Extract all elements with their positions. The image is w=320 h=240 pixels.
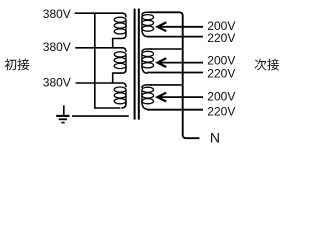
transformer secondary winding S1 (coil loops) [142,12,154,36]
svg-text:N: N [210,129,220,145]
svg-text:380V: 380V [43,7,71,21]
transformer core (double bar) [134,9,136,120]
wire: 380V phase-3 input line [76,83,126,87]
wire: S3 bottom lead (220V) [147,109,203,111]
wire: S2 top lead to bus [150,48,182,50]
wire: 380V phase-1 input line [75,13,126,17]
wire: S3 top lead to bus [150,84,182,86]
svg-text:220V: 220V [207,66,235,80]
wire: winding P1 bottom to phase-2 junction step [113,31,126,47]
transformer primary winding P1 (coil loops) [114,17,126,34]
svg-text:200V: 200V [207,90,235,104]
wire: left vertical bus [95,13,121,108]
arrow: S3 tap (200V) [158,93,204,102]
wire: winding P3 bottom to bus corner [122,101,127,108]
wire: S1 bottom lead (220V) [147,36,203,38]
ground symbol [56,105,129,122]
transformer secondary winding S2 (coil loops) [142,49,154,73]
svg-text:380V: 380V [43,40,71,54]
svg-text:380V: 380V [43,76,71,90]
wire: S2 bottom lead (220V) [147,72,203,74]
wire: ground lead to core [72,115,129,117]
label 初接 (primary side) [5,59,30,71]
svg-text:220V: 220V [207,31,235,45]
arrow: S1 tap (200V) [158,22,204,31]
transformer primary winding P3 (coil loops) [114,87,126,104]
label 次接 (secondary side) [255,59,279,71]
wire: secondary neutral bus with N lead [150,12,199,138]
transformer primary winding P2 (coil loops) [114,52,126,69]
svg-text:220V: 220V [207,104,235,118]
transformer secondary winding S3 (coil loops) [142,85,154,109]
arrow: S2 tap (200V) [158,58,204,67]
wire: 380V phase-2 input line [75,48,126,52]
wire: winding P2 bottom to phase-3 junction step [113,66,126,83]
